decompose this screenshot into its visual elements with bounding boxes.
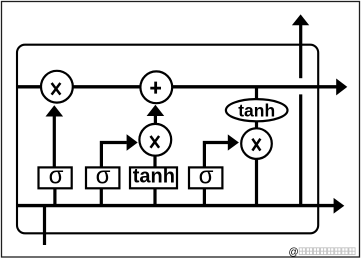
wire: sigma2 down connector [100,188,103,206]
wire: h branch vertical upper segment [299,25,302,79]
wire: sigma1 down connector [53,188,56,206]
wire: sigma2 elbow to input multiply arrow [101,143,126,168]
add node [140,71,172,103]
svg-text:tanh: tanh [238,101,275,121]
svg-text:σ: σ [199,163,214,190]
wire: input multiply to add node arrow [154,115,157,125]
wire: tanh ellipse to output multiply connector [255,120,258,130]
wire: sigma3 elbow to output multiply arrow [204,143,228,168]
LSTM cell boundary [17,45,318,234]
arrowhead: cell state output right [336,79,347,96]
multiply node forget gate [41,71,73,103]
tanh ellipse [226,99,288,121]
wire: sigma1 to forget multiply arrow [53,115,56,168]
tanh box candidate [130,167,177,188]
wire: cell line to tanh ellipse connector [255,87,258,100]
arrowhead: hidden state output right [334,198,345,214]
wire: tanh box to input multiply connector [153,154,156,168]
sigma box 3 output gate [189,167,222,188]
wire: sigma3 down connector [203,188,206,206]
sigma box 2 input gate [86,167,119,188]
wire: hidden state line h [17,204,334,207]
wire: h branch vertical lower segment [299,94,302,205]
wire: output multiply down to hidden line [255,158,258,206]
watermark [289,247,356,258]
wire: input line bottom left [43,206,46,245]
sigma box 1 forget gate [39,167,72,188]
multiply node output gate [241,128,272,159]
svg-text:σ: σ [96,163,111,190]
svg-text:@: @ [289,247,299,258]
arrowhead: h output top [292,14,309,25]
wire: tanh box down connector [153,188,156,206]
svg-text:σ: σ [49,163,64,190]
wire: cell state line c [17,85,337,88]
multiply node input gate [139,124,171,156]
svg-text:tanh: tanh [133,166,175,188]
